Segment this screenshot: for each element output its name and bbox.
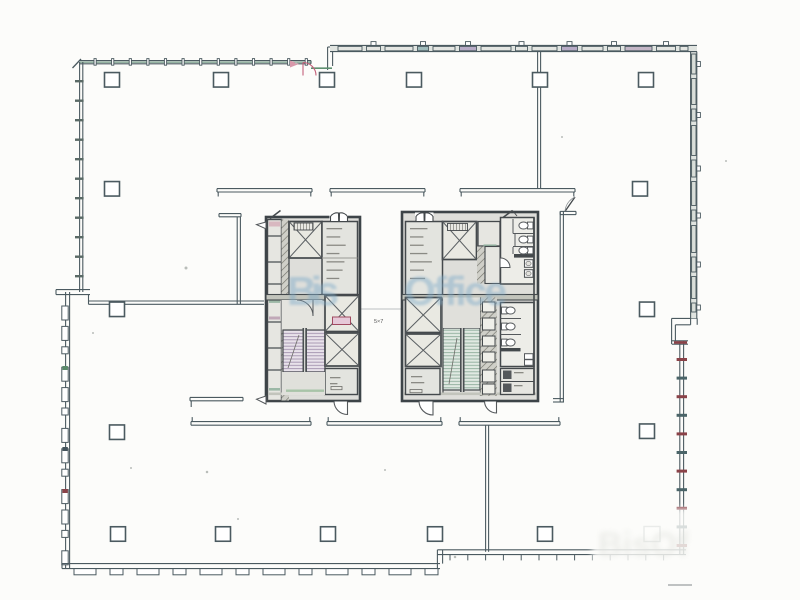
grid column row3-F xyxy=(640,302,655,317)
window mullion ticks on left upper wall xyxy=(75,80,84,277)
toilet entry door leaf diagonal xyxy=(503,211,517,218)
right core south door swing 1 xyxy=(419,402,433,416)
grid column row1-E xyxy=(533,73,548,88)
left core internal partition lines xyxy=(268,222,358,396)
scan speck noise dots xyxy=(92,62,727,558)
outer wall: bottom-right (y 550-555, x 437-686) xyxy=(437,550,686,555)
left core hatched wall band xyxy=(282,220,290,401)
left core south door swing xyxy=(334,402,348,415)
right core staircase xyxy=(443,326,480,392)
grid column row2-F xyxy=(633,182,648,197)
right core hatched band upper xyxy=(477,247,485,284)
right core elevator E4 with door stripes xyxy=(443,222,477,260)
left core west service shafts (PD/M ducts) xyxy=(268,220,282,401)
right core upper toilet with fixtures xyxy=(501,218,535,285)
left core lower landing xyxy=(282,372,326,395)
left core outline xyxy=(266,217,360,401)
left core mid wall (y 295-300) xyxy=(266,295,360,301)
outer wall: left step (y 289-295, x 56-90) xyxy=(56,290,90,305)
right core bottom service rooms BhM xyxy=(501,369,535,395)
curtain-wall glazing segments on right upper wall xyxy=(692,54,701,312)
right core room Bh2 xyxy=(406,369,441,395)
outer wall: left lower (x 65-70, y 292-569) xyxy=(66,292,70,569)
corridor south wall segment 3 (y 422, x 459-560) xyxy=(459,417,560,425)
right core internal partition lines xyxy=(404,298,536,397)
faint corridor line between cores (y 309) xyxy=(361,308,402,310)
right core toilet east wall xyxy=(533,218,535,395)
svg-text:Office: Office xyxy=(404,268,507,314)
window frames on left lower wall xyxy=(62,306,68,565)
left core west door leaves xyxy=(257,222,267,404)
window mullion ticks on top-left wall xyxy=(94,59,307,66)
right core outline xyxy=(402,212,538,401)
grid column row4-A xyxy=(110,425,125,440)
left core NW diagonal door leaf xyxy=(270,211,281,219)
grid column row3-A xyxy=(110,302,125,317)
grid column row1-D xyxy=(407,73,422,88)
grid column row1-F xyxy=(639,73,654,88)
outer wall: top jog (x 327-333, y 47-70) xyxy=(328,47,333,70)
right core north double door xyxy=(415,213,434,222)
grid column row5-F (faded) xyxy=(644,527,660,542)
green threshold line at entry (y 68, x 311-331) xyxy=(311,67,332,69)
left core north double door xyxy=(330,213,349,222)
outer wall: right side jog (x 672, y 318-344) xyxy=(672,318,698,344)
right core lower toilet with fixtures xyxy=(501,303,535,367)
watermark Bis xyxy=(287,268,339,314)
interior wall from top wall to corridor (x 538, y 52-189) xyxy=(538,52,541,189)
outer wall: top upper (y 45-52, x 330-697) xyxy=(330,45,697,51)
red entry door swing at top wall xyxy=(290,61,316,76)
left core elevator E3 xyxy=(325,333,359,366)
grid column row2-A xyxy=(105,182,120,197)
outer wall: bottom step (x 437-443) xyxy=(437,550,442,569)
right core mid wall (y 295-300) xyxy=(402,295,538,301)
right core stair landing xyxy=(443,298,480,329)
left core elevator E2 with XFD label xyxy=(325,296,359,332)
outer wall: bottom-left (y 563-569, x 62-440) xyxy=(62,564,440,569)
east zone wall (x 560-563, y 211-402) xyxy=(553,211,576,402)
grid column row4-F xyxy=(640,424,655,439)
corridor north wall segment 3 (y 189, x 460-575) xyxy=(460,189,575,197)
outer wall: top-left segment (y 60-64, x 80-311) xyxy=(80,61,311,64)
corridor south wall segment 2 (y 422, x 327-442) xyxy=(327,417,442,425)
left core room Bh xyxy=(325,369,358,395)
corridor north wall segment 1 (y 189, x 217-312) xyxy=(217,189,312,197)
svg-text:BisOf: BisOf xyxy=(598,526,689,564)
window frames under bottom-left wall xyxy=(74,569,438,575)
svg-text:5×7: 5×7 xyxy=(374,319,383,325)
grid column row5-B xyxy=(216,527,231,542)
grid column row1-C xyxy=(320,73,335,88)
grid column row1-B xyxy=(214,73,229,88)
small partition wall (y 397-401, x 190-243) xyxy=(190,397,243,407)
outer wall: right lower (x 680-684, y 341-555) xyxy=(680,341,684,555)
right core green door line xyxy=(484,245,497,248)
watermark Office xyxy=(404,268,507,314)
east zone door leaf xyxy=(565,197,575,211)
right core room below NE xyxy=(485,247,500,284)
blurred-out watermark patch bottom-right xyxy=(592,508,706,576)
faint dash below bottom-right corner xyxy=(668,584,692,586)
left core elevator E1 with door stripes xyxy=(289,222,322,259)
grid column row5-D xyxy=(428,527,443,542)
svg-text:Bis: Bis xyxy=(287,268,339,314)
colored window ticks on right lower wall xyxy=(677,358,687,547)
right core machine room with annotation text xyxy=(406,222,443,297)
corridor dimension label 5X7 xyxy=(374,319,383,325)
interior wall from corridor to bottom wall (x 486, y 427-552) xyxy=(486,425,489,552)
right core elevator E6 xyxy=(406,334,442,367)
outer wall: right upper (x 690-697, y 45-321) xyxy=(691,45,697,324)
right core small room NE xyxy=(478,222,500,247)
top-left corner chamfer xyxy=(73,59,82,68)
grid column row1-A xyxy=(105,73,120,88)
grid column row5-C xyxy=(321,527,336,542)
left core elevator lobby and swing door xyxy=(282,300,323,330)
left core machine room with annotation text xyxy=(322,222,358,295)
right core service shaft band with doors xyxy=(481,298,498,397)
window ticks under bottom-right wall xyxy=(450,555,664,561)
right core elevator E5 xyxy=(406,298,442,333)
grid column row5-A xyxy=(111,527,126,542)
curtain-wall glazing segments on top upper wall xyxy=(338,42,688,51)
outer wall: left upper (x 79-83, y 62-292) xyxy=(80,62,83,292)
corridor north wall segment 2 (y 189, x 330-425) xyxy=(330,189,425,197)
right core south door swing 2 xyxy=(485,402,497,414)
left core staircase xyxy=(283,328,325,374)
west room L-wall (x 237, y 213-302 and y 298-302, x 88-264) xyxy=(89,214,265,305)
corridor south wall segment 1 (y 422, x 191-311) xyxy=(191,417,311,425)
grid column row5-E xyxy=(538,527,553,542)
